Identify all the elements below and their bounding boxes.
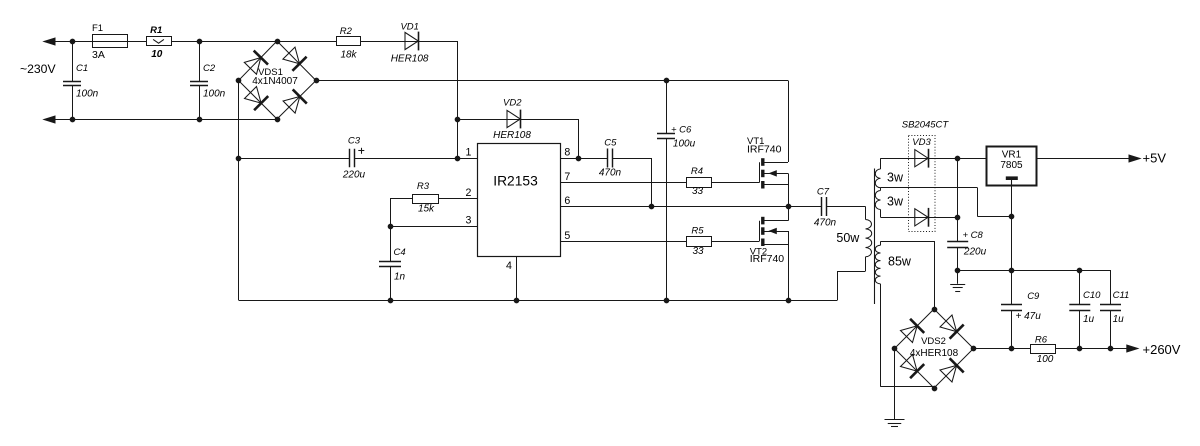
svg-text:100n: 100n — [203, 88, 226, 99]
svg-text:7805: 7805 — [1000, 160, 1023, 171]
svg-text:C9: C9 — [1027, 291, 1040, 302]
svg-text:15k: 15k — [418, 204, 435, 215]
svg-text:3: 3 — [466, 215, 472, 227]
svg-text:100: 100 — [1037, 354, 1054, 365]
svg-text:1u: 1u — [1113, 314, 1125, 325]
svg-text:+5V: +5V — [1143, 151, 1167, 166]
svg-text:HER108: HER108 — [391, 53, 429, 64]
svg-text:10: 10 — [151, 49, 163, 60]
svg-text:F1: F1 — [92, 23, 103, 34]
svg-text:6: 6 — [564, 195, 570, 207]
svg-text:IR2153: IR2153 — [493, 174, 538, 189]
svg-text:3A: 3A — [92, 49, 105, 61]
svg-text:4x1N4007: 4x1N4007 — [252, 76, 298, 87]
svg-text:VD2: VD2 — [503, 98, 522, 109]
svg-text:1n: 1n — [394, 272, 406, 283]
svg-text:1u: 1u — [1083, 314, 1095, 325]
svg-text:+ C6: + C6 — [671, 124, 692, 135]
svg-text:220u: 220u — [963, 246, 987, 257]
svg-text:IRF740: IRF740 — [750, 253, 785, 265]
svg-text:3w: 3w — [887, 171, 904, 185]
svg-text:R1: R1 — [150, 25, 162, 36]
svg-text:85w: 85w — [888, 254, 912, 268]
svg-text:C2: C2 — [203, 63, 216, 74]
svg-text:IRF740: IRF740 — [747, 144, 782, 156]
svg-text:C7: C7 — [817, 186, 830, 197]
svg-text:33: 33 — [692, 186, 704, 197]
svg-text:VD1: VD1 — [400, 21, 418, 32]
svg-text:4xHER108: 4xHER108 — [910, 348, 959, 359]
svg-text:VDS2: VDS2 — [921, 336, 946, 347]
svg-text:VD3: VD3 — [912, 137, 931, 148]
svg-text:3w: 3w — [887, 195, 904, 209]
svg-text:R5: R5 — [691, 225, 704, 236]
svg-text:C1: C1 — [76, 63, 88, 74]
svg-text:1: 1 — [466, 147, 472, 159]
svg-text:18k: 18k — [340, 50, 357, 61]
svg-text:8: 8 — [564, 147, 570, 159]
svg-text:HER108: HER108 — [493, 130, 531, 141]
svg-text:SB2045CT: SB2045CT — [902, 119, 950, 130]
svg-text:470n: 470n — [599, 168, 622, 179]
svg-text:R4: R4 — [691, 166, 703, 177]
svg-text:100n: 100n — [76, 88, 99, 99]
svg-text:C4: C4 — [394, 247, 406, 258]
svg-text:C10: C10 — [1083, 290, 1101, 301]
svg-text:C3: C3 — [348, 136, 361, 147]
svg-text:C11: C11 — [1113, 290, 1130, 301]
svg-text:~230V: ~230V — [20, 62, 56, 76]
svg-text:R2: R2 — [340, 26, 353, 37]
svg-text:C5: C5 — [604, 138, 617, 149]
svg-text:2: 2 — [466, 187, 472, 199]
svg-text:+260V: +260V — [1143, 342, 1181, 357]
svg-text:R6: R6 — [1035, 335, 1048, 346]
svg-text:+ C8: + C8 — [963, 230, 984, 241]
svg-text:470n: 470n — [814, 218, 837, 229]
svg-text:50w: 50w — [836, 231, 860, 245]
svg-text:100u: 100u — [673, 139, 696, 150]
svg-text:+ 47u: + 47u — [1016, 311, 1042, 322]
svg-text:7: 7 — [564, 171, 570, 183]
svg-text:4: 4 — [506, 260, 512, 272]
svg-text:R3: R3 — [417, 181, 430, 192]
svg-text:5: 5 — [564, 230, 570, 242]
svg-text:33: 33 — [692, 246, 704, 257]
svg-text:220u: 220u — [342, 170, 366, 181]
